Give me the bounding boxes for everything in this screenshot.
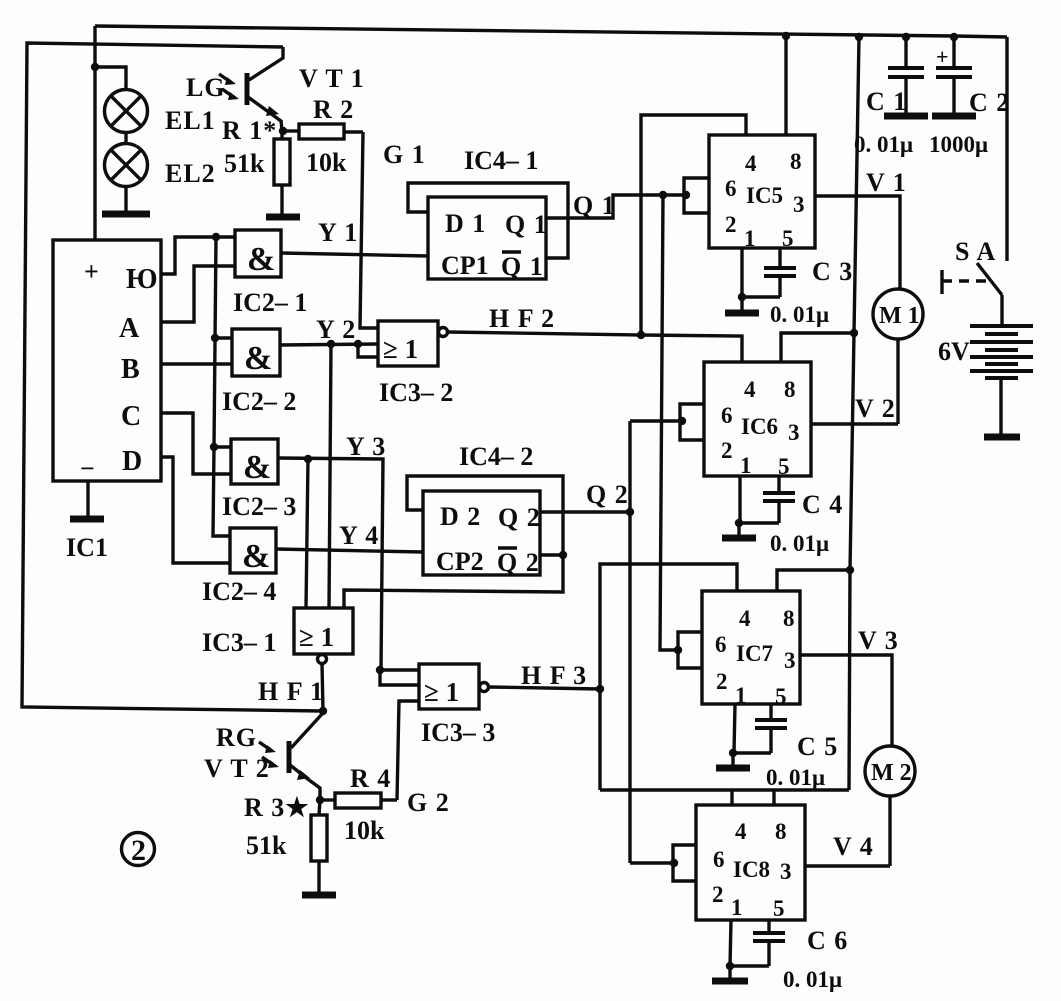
gate IC3-2 OR — [378, 321, 448, 366]
svg-text:0. 01μ: 0. 01μ — [783, 967, 842, 992]
svg-text:3: 3 — [780, 859, 792, 884]
resistor R4 — [320, 793, 397, 808]
wire IC7 pin8 from supply rail — [777, 570, 849, 591]
svg-text:M 2: M 2 — [871, 760, 912, 786]
node junction bus top — [212, 233, 220, 241]
svg-text:R 4: R 4 — [350, 764, 391, 793]
svg-text:V T 2: V T 2 — [204, 754, 270, 783]
node junction Y3 to IC3-3 — [376, 666, 384, 674]
svg-text:Q 2: Q 2 — [497, 548, 540, 577]
svg-text:R 2: R 2 — [313, 95, 354, 124]
wire Q2 to IC6 notch — [630, 419, 682, 422]
wire right border down to switch SA — [1005, 37, 1008, 261]
svg-text:V 4: V 4 — [833, 832, 874, 861]
node junction at IC8 notch — [670, 859, 678, 867]
lamp EL2 — [105, 144, 148, 187]
svg-text:H F 3: H F 3 — [521, 661, 587, 690]
ground under IC7 — [716, 753, 750, 768]
wire IC7 pin1 to ground — [734, 704, 735, 753]
node junction rail at IC7 — [846, 566, 854, 574]
wire V1 from IC5 pin3 to motor M1 — [815, 196, 900, 289]
svg-text:IC2– 3: IC2– 3 — [222, 492, 296, 521]
node junction rail top — [855, 33, 863, 41]
svg-text:1: 1 — [744, 226, 756, 251]
wire bus stub to IC2-3 input 1 — [214, 445, 231, 448]
wire IC4-1 feedback loop Q1bar to D1 — [408, 183, 568, 258]
IC5 timer box — [684, 135, 815, 251]
svg-text:S A: S A — [955, 237, 996, 266]
svg-text:1000μ: 1000μ — [929, 132, 988, 157]
wire Y2 from IC2-2 to IC3-2 — [280, 344, 378, 345]
wire C pin to IC2-3 input 2 — [161, 413, 231, 474]
svg-text:&: & — [247, 241, 275, 278]
svg-text:5: 5 — [782, 226, 794, 251]
svg-text:2: 2 — [712, 882, 724, 907]
svg-text:8: 8 — [784, 377, 796, 402]
svg-text:IC4– 2: IC4– 2 — [459, 442, 533, 471]
svg-text:≥ 1: ≥ 1 — [299, 622, 334, 652]
wire A pin to IC2-1 input 2 — [161, 266, 235, 322]
node junction IC5 pin1 — [738, 293, 746, 301]
node junction HF2 riser — [637, 331, 645, 339]
gate IC2-3 AND — [231, 439, 278, 486]
wire IC1 minus to ground — [86, 481, 89, 518]
wire G2 from R4 up to IC3-3 input 3 — [397, 701, 419, 800]
wire Y3 from IC2-3 across and down to IC3-3 — [278, 458, 383, 670]
wire Y4 from IC2-4 to CP2 — [276, 549, 423, 552]
IC6 timer box — [680, 362, 811, 479]
motor M2 — [865, 746, 915, 796]
wire IO pin to IC2-1 input 1 — [161, 237, 235, 274]
wire HF1 from IC3-1 output — [322, 664, 323, 711]
svg-text:IC4– 1: IC4– 1 — [464, 146, 538, 175]
svg-text:≥ 1: ≥ 1 — [383, 334, 418, 364]
wire Q2bar down and left to IC3-1 input 3 — [344, 555, 563, 608]
capacitor C2 polarized — [932, 37, 976, 116]
ground under battery — [984, 434, 1020, 441]
svg-text:Ю: Ю — [126, 264, 158, 295]
node junction Q1 at IC5 notch — [682, 191, 690, 199]
wire IC6 pin8 from supply rail — [781, 333, 854, 362]
wire between EL1 and EL2 — [124, 133, 127, 144]
wire Y2 riser down to IC3-1 — [329, 344, 331, 608]
svg-text:1: 1 — [740, 453, 752, 478]
svg-text:51k: 51k — [246, 831, 287, 860]
capacitor C6 — [730, 920, 785, 966]
svg-text:8: 8 — [783, 606, 795, 631]
wire input bus vertical — [213, 237, 230, 536]
transistor VT1 — [247, 73, 282, 131]
node junction Q2bar — [559, 551, 567, 559]
overbar on Q2-bar — [498, 546, 517, 549]
svg-text:V T 1: V T 1 — [299, 64, 365, 93]
gate IC3-3 OR — [419, 664, 489, 709]
svg-text:2: 2 — [716, 669, 728, 694]
svg-text:6: 6 — [713, 847, 725, 872]
svg-text:M 1: M 1 — [879, 303, 920, 329]
lamp EL1 — [105, 90, 148, 133]
wire HF2 riser up to IC5 pin4 — [641, 115, 746, 335]
svg-text:D 2: D 2 — [440, 502, 481, 531]
wire B pin to IC2-2 input 2 — [161, 362, 232, 365]
ground under R1 — [266, 214, 300, 221]
wire IC6 pin1 to ground — [738, 476, 741, 523]
svg-text:&: & — [242, 538, 270, 575]
svg-text:IC3– 1: IC3– 1 — [202, 628, 276, 657]
node junction Y3 riser tap — [304, 455, 312, 463]
svg-text:D: D — [122, 446, 142, 477]
svg-text:1: 1 — [735, 683, 747, 708]
svg-text:Q 2: Q 2 — [586, 480, 629, 509]
node junction rail at IC6 — [850, 329, 858, 337]
svg-text:6: 6 — [721, 403, 733, 428]
resistor R3 — [311, 800, 327, 893]
transistor VT2 — [289, 741, 320, 800]
svg-text:2: 2 — [721, 438, 733, 463]
overbar on Q1-bar — [502, 250, 521, 253]
svg-text:−: − — [80, 454, 95, 483]
svg-text:A: A — [119, 313, 140, 344]
wire Q2 to IC8 notch — [630, 861, 674, 864]
IC7 timer box — [678, 591, 800, 709]
node junction Y2 stub tap — [354, 340, 362, 348]
svg-text:D 1: D 1 — [445, 209, 486, 238]
svg-text:C 4: C 4 — [802, 490, 843, 519]
svg-text:3: 3 — [788, 420, 800, 445]
svg-text:CP2: CP2 — [436, 547, 484, 576]
wire IC8 pin1 to ground — [730, 920, 731, 966]
svg-text:4: 4 — [745, 151, 757, 176]
capacitor C4 — [739, 476, 795, 523]
svg-text:5: 5 — [778, 454, 790, 479]
capacitor C3 — [742, 248, 796, 297]
svg-text:H F 1: H F 1 — [258, 677, 324, 706]
node junction lamp tap — [91, 63, 99, 71]
svg-text:+: + — [936, 44, 949, 69]
ground under IC5 — [725, 297, 759, 313]
node junction at IC6 notch — [678, 417, 686, 425]
wire Q2 riser up to IC6 trigger and down to IC8 trigger — [628, 421, 631, 863]
svg-text:C 6: C 6 — [807, 926, 848, 955]
svg-text:2: 2 — [725, 212, 737, 237]
ground under IC8 — [712, 966, 748, 981]
wire IC8 pin4 stub — [730, 790, 733, 805]
svg-text:Q 1: Q 1 — [501, 252, 544, 281]
svg-text:CP1: CP1 — [441, 251, 489, 280]
svg-text:C: C — [121, 401, 141, 432]
svg-text:51k: 51k — [224, 149, 265, 178]
svg-text:C 2: C 2 — [969, 88, 1010, 117]
node junction at IC7 notch — [674, 646, 682, 654]
svg-text:B: B — [121, 354, 140, 385]
node junction HF1 — [319, 707, 327, 715]
svg-text:6: 6 — [725, 176, 737, 201]
svg-text:&: & — [243, 449, 271, 486]
svg-text:C 5: C 5 — [797, 732, 838, 761]
svg-text:EL2: EL2 — [165, 159, 216, 188]
svg-text:&: & — [244, 340, 272, 377]
node junction C1 at rail — [902, 33, 910, 41]
battery 6V — [970, 326, 1033, 434]
node junction HF3 — [596, 685, 604, 693]
svg-text:V 2: V 2 — [855, 394, 896, 423]
wire IC8 top feed line — [600, 788, 849, 791]
svg-text:5: 5 — [773, 896, 785, 921]
svg-text:Y 4: Y 4 — [339, 521, 379, 550]
wire top supply rail — [95, 26, 1007, 37]
svg-text:C 3: C 3 — [812, 257, 853, 286]
transistor VT2 collector wire — [291, 713, 323, 748]
wire G1 from R2 down to IC3-2 input — [360, 132, 378, 328]
svg-text:0. 01μ: 0. 01μ — [770, 531, 829, 556]
svg-text:1: 1 — [731, 895, 743, 920]
RG photo arrows — [259, 742, 279, 768]
wire HF3 loop up to IC7 pin4 — [600, 564, 737, 689]
capacitor C5 — [733, 704, 787, 753]
svg-text:Q 2: Q 2 — [498, 503, 541, 532]
svg-text:V 1: V 1 — [866, 168, 907, 197]
svg-text:6: 6 — [715, 632, 727, 657]
svg-text:LG: LG — [186, 73, 226, 102]
wire Y3 riser down to IC3-1 — [306, 459, 308, 608]
svg-text:Y 1: Y 1 — [318, 218, 358, 247]
wire main supply rail vertical — [849, 37, 859, 790]
resistor R1 — [274, 131, 290, 215]
svg-text:8: 8 — [775, 819, 787, 844]
wire V2 from IC6 pin3 — [811, 422, 898, 425]
wire IC4-2 feedback loop Q2bar to D2 — [407, 476, 563, 555]
svg-text:V 3: V 3 — [858, 626, 899, 655]
node junction IC5 riser at rail — [782, 32, 790, 40]
svg-text:+: + — [84, 257, 99, 286]
svg-text:C 1: C 1 — [866, 87, 907, 116]
switch SA — [942, 263, 1002, 326]
node junction VT2 emitter / R3 / R4 — [316, 796, 324, 804]
svg-text:≥ 1: ≥ 1 — [424, 677, 459, 707]
node junction Q1 riser — [659, 191, 667, 199]
svg-text:IC2– 4: IC2– 4 — [202, 577, 276, 606]
wire Y2 stub to IC3-2 input 3 — [358, 344, 378, 357]
svg-text:4: 4 — [735, 819, 747, 844]
svg-text:6V: 6V — [938, 337, 970, 366]
wire EL2 to ground — [124, 187, 127, 213]
svg-text:R 3★: R 3★ — [244, 793, 310, 822]
svg-text:4: 4 — [739, 606, 751, 631]
svg-text:IC3– 2: IC3– 2 — [379, 378, 453, 407]
svg-text:IC2– 1: IC2– 1 — [233, 288, 307, 317]
node junction C2 at rail — [950, 33, 958, 41]
svg-text:IC7: IC7 — [736, 641, 773, 666]
svg-text:Y 2: Y 2 — [316, 315, 356, 344]
flip-flop IC4-1 box — [428, 197, 546, 279]
wire M2 bottom to V4 — [888, 796, 891, 866]
svg-text:G 1: G 1 — [383, 140, 426, 169]
wire IC1 plus-pin riser to top rail — [93, 26, 96, 240]
capacitor C1 — [884, 36, 928, 116]
svg-text:G 2: G 2 — [407, 788, 450, 817]
LG photo arrows — [219, 74, 239, 100]
transistor VT1 collector wire — [249, 47, 283, 80]
svg-text:5: 5 — [775, 684, 787, 709]
wire Y3 stub into IC3-3 input 2 — [380, 670, 419, 685]
wire Q1 from IC4-1 to IC5 trigger — [546, 195, 686, 218]
svg-text:IC1: IC1 — [66, 533, 108, 562]
svg-text:0. 01μ: 0. 01μ — [854, 132, 913, 157]
svg-text:Q 1: Q 1 — [505, 210, 548, 239]
wire M1 bottom to V2 — [896, 339, 899, 424]
wire lamp branch — [95, 67, 126, 90]
svg-text:RG: RG — [216, 723, 257, 752]
motor M1 — [873, 289, 923, 339]
svg-text:IC2– 2: IC2– 2 — [222, 387, 296, 416]
svg-text:3: 3 — [793, 192, 805, 217]
svg-text:Q 1: Q 1 — [573, 191, 616, 220]
node junction bus to IC2-3 — [210, 443, 218, 451]
svg-text:10k: 10k — [344, 816, 385, 845]
wire bus stub to IC2-2 input 1 — [215, 336, 232, 339]
svg-text:EL1: EL1 — [165, 106, 216, 135]
ground under lamps — [102, 211, 150, 218]
node junction IC6 pin1 — [735, 519, 743, 527]
wire D pin to IC2-4 input 2 — [161, 457, 230, 563]
svg-text:R 1*: R 1* — [222, 116, 277, 145]
resistor R2 — [283, 124, 363, 139]
svg-text:2: 2 — [131, 834, 146, 867]
gate IC2-4 AND — [230, 528, 276, 575]
svg-text:0. 01μ: 0. 01μ — [766, 765, 825, 790]
node junction VT1 emitter / R1 / R2 — [279, 127, 287, 135]
flip-flop IC4-2 box — [423, 491, 540, 575]
wire HF3 from IC3-3 output — [489, 687, 600, 689]
svg-text:4: 4 — [744, 377, 756, 402]
wire Y3 into IC3-3 input 1 — [380, 668, 419, 671]
wire HF3 loop down to IC8 feed line — [598, 689, 601, 790]
gate IC2-2 AND — [232, 329, 280, 377]
figure number circled 2 — [122, 833, 155, 868]
ground under IC6 — [722, 523, 756, 538]
svg-text:H F 2: H F 2 — [489, 304, 555, 333]
wire IC5 pin8 riser from top rail — [784, 37, 787, 135]
wire Y1 from IC2-1 to CP1 — [281, 253, 428, 256]
svg-text:10k: 10k — [306, 148, 347, 177]
gate IC2-1 AND — [235, 230, 281, 278]
svg-text:IC8: IC8 — [733, 857, 770, 882]
ground under IC1 — [70, 516, 104, 523]
node junction IC8 pin1 — [726, 962, 734, 970]
svg-text:IC5: IC5 — [746, 183, 783, 208]
wire Q1 riser down to IC7 trigger — [660, 195, 678, 650]
svg-text:IC3– 3: IC3– 3 — [421, 718, 495, 747]
svg-text:IC6: IC6 — [741, 414, 778, 439]
wire IC8 pin8 stub — [772, 790, 775, 805]
svg-text:Y 3: Y 3 — [346, 432, 386, 461]
svg-text:3: 3 — [784, 648, 796, 673]
node junction Q2 riser — [626, 508, 634, 516]
ground under R3 — [302, 892, 336, 899]
IC8 timer box — [673, 805, 805, 921]
svg-text:8: 8 — [790, 149, 802, 174]
node junction Y2 riser tap — [327, 340, 335, 348]
wire V4 from IC8 pin3 — [805, 864, 890, 867]
wire IC5 pin1 to ground — [740, 248, 743, 297]
node junction IC7 pin1 — [729, 749, 737, 757]
wire HF2 from IC3-2 to IC6 pin4 — [448, 332, 742, 362]
wire V3 from IC7 pin3 to motor M2 — [800, 655, 892, 746]
svg-text:0. 01μ: 0. 01μ — [770, 302, 829, 327]
wire Q2 from IC4-2 — [540, 510, 630, 513]
wire left border loop (HF1 return to VT1 collector) — [22, 43, 323, 711]
IC1 decoder box — [53, 240, 161, 481]
node junction bus to IC2-2 — [211, 334, 219, 342]
gate IC3-1 OR — [294, 608, 353, 664]
